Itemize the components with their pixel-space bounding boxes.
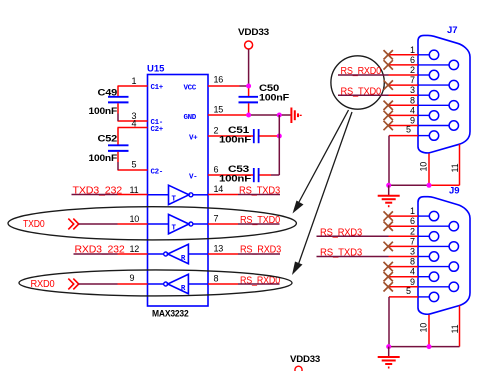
svg-text:1: 1 <box>132 76 137 86</box>
J9 pin 2 (RS_RXD3) <box>389 226 439 241</box>
buffer R1 (receiver, pins 13-12) <box>148 244 209 263</box>
wire RXD3_232 to pin 12 <box>74 253 118 255</box>
svg-text:13: 13 <box>214 244 224 254</box>
svg-text:5: 5 <box>132 160 137 170</box>
svg-text:4: 4 <box>410 267 415 277</box>
svg-text:11: 11 <box>130 185 139 195</box>
svg-text:15: 15 <box>214 105 224 115</box>
pin 11 (T1 in) <box>118 185 148 195</box>
J7 pin 6 <box>389 55 459 70</box>
wire RS_RXD0 to J7 pin2 <box>338 74 389 76</box>
node RXD0 (sheet entry chevron) <box>31 278 79 290</box>
svg-text:5: 5 <box>406 286 411 296</box>
junction J9 rail / pin5 wire <box>386 344 391 349</box>
no-connect X on J7 pin 4 <box>384 111 393 120</box>
node TXD0 (sheet entry chevron) <box>23 218 79 230</box>
J9 pin 4 <box>389 267 439 282</box>
wire pin14 RS_TXD3 <box>238 194 280 196</box>
svg-text:10: 10 <box>419 162 429 172</box>
J7 body <box>418 35 470 153</box>
wire J9 pin5 down to ground rail <box>388 297 390 347</box>
no-connect X on J9 pin 9 <box>384 282 393 291</box>
svg-text:8: 8 <box>214 274 219 284</box>
svg-text:4: 4 <box>410 105 415 115</box>
wire GND rail pin15 <box>249 114 291 116</box>
wire RS_TXD3 to J9 pin3 <box>317 256 389 258</box>
J9 pin 6 <box>389 216 459 231</box>
no-connect X on J9 pin 7 <box>384 242 393 251</box>
svg-text:VDD33: VDD33 <box>238 27 269 38</box>
wire TXD0 to pin 10 <box>79 223 118 225</box>
no-connect X on J7 pin 8 <box>384 101 393 110</box>
power port VDD33 (bottom) <box>290 354 320 371</box>
svg-text:6: 6 <box>410 216 415 226</box>
svg-text:14: 14 <box>214 184 224 194</box>
pin 15 (GND) <box>184 105 249 122</box>
wire vertical GND to C51/C53 <box>278 115 280 175</box>
J7 pin 2 (RS_RXD0) <box>389 65 439 80</box>
svg-text:7: 7 <box>410 75 415 85</box>
svg-text:GND: GND <box>184 114 197 122</box>
ground (earth) below J9 <box>378 347 400 368</box>
svg-text:MAX3232: MAX3232 <box>152 309 189 320</box>
buffer R2 (receiver, pins 8-9) <box>148 274 209 293</box>
junction J7 rail / pin5 wire <box>386 183 391 188</box>
svg-text:VCC: VCC <box>184 84 197 92</box>
svg-text:C1+: C1+ <box>151 84 164 92</box>
svg-text:6: 6 <box>410 55 415 65</box>
junction J9 rail / pin10 <box>427 344 432 349</box>
svg-text:3: 3 <box>410 85 415 95</box>
svg-text:6: 6 <box>214 165 219 175</box>
wire pin16 to VDD junction and C50 <box>240 86 249 115</box>
wire RS_RXD3 to J9 pin2 <box>317 235 389 237</box>
J7 pin 11 (shield) <box>450 144 460 185</box>
svg-text:J7: J7 <box>447 25 458 36</box>
wire pin2 through C51 to vertical <box>238 135 279 137</box>
svg-text:10: 10 <box>419 323 429 333</box>
J7 pin 4 <box>389 105 439 120</box>
svg-text:5: 5 <box>406 125 411 135</box>
annotation circle around RS_RXD0/RS_TXD0 labels <box>331 56 384 109</box>
capacitor C49 <box>89 88 129 118</box>
wire VDD33 vertical to pin16 <box>248 49 250 85</box>
pin 7 (T2 out) <box>208 214 238 225</box>
svg-text:C2+: C2+ <box>151 126 164 134</box>
svg-text:16: 16 <box>214 75 224 85</box>
svg-text:10: 10 <box>130 214 140 224</box>
wire J7 ground rail <box>389 184 429 186</box>
svg-text:C52: C52 <box>98 134 118 145</box>
svg-text:100nF: 100nF <box>89 106 118 117</box>
J7 pin 5 (ground) <box>389 125 439 141</box>
ground (earth) below J7 <box>378 185 400 206</box>
svg-text:100nF: 100nF <box>89 153 118 164</box>
svg-text:8: 8 <box>410 257 415 267</box>
power port VDD33 (top) <box>238 27 269 49</box>
J9 pin 1 <box>389 206 439 221</box>
pin 4 (C2+) <box>118 119 164 134</box>
pin 12 (R1 out) <box>118 244 148 254</box>
J9 pin 11 (shield) <box>450 306 460 347</box>
no-connect X on J7 pin 7 <box>384 80 393 89</box>
pin 9 (R2 out) <box>118 273 148 284</box>
J9 pin 9 <box>389 277 459 292</box>
junction GND vertical <box>277 113 282 118</box>
J7 pin 8 <box>389 95 459 110</box>
buffer T2 (driver, pins 10-7) <box>148 214 209 233</box>
capacitor C53 <box>219 164 259 185</box>
annotation ellipse around TXD0 row <box>8 207 296 240</box>
annotation arrow to RXD0 ellipse <box>292 112 352 275</box>
capacitor C52 <box>89 134 129 165</box>
J9 pin 10 (shield) <box>419 315 430 347</box>
pin 1 (C1+) <box>118 76 164 92</box>
J9 pin 5 (ground) <box>389 286 439 302</box>
no-connect X on J9 pin 4 <box>384 272 393 281</box>
annotation ellipse around RXD0 row <box>19 270 292 296</box>
wire RXD0 to pin 9 <box>79 283 118 285</box>
wire C49 to pin1 and pin3 <box>117 86 119 121</box>
wire C52 to pin4 and pin5 <box>117 128 119 171</box>
svg-text:1: 1 <box>410 45 415 55</box>
svg-text:1: 1 <box>410 206 415 216</box>
svg-text:7: 7 <box>214 214 219 224</box>
wire J9 ground rail <box>389 346 460 348</box>
svg-text:100nF: 100nF <box>259 93 289 104</box>
pin 16 (VCC) <box>184 75 240 93</box>
pin 6 (V-) <box>189 165 238 182</box>
connector J9 (DB9) <box>418 186 470 315</box>
ground (rotated earth, GND net) <box>291 108 300 124</box>
op-amp U15 IC body MAX3232 <box>147 64 208 320</box>
svg-text:RXD0: RXD0 <box>31 278 55 290</box>
no-connect X on J9 pin 8 <box>384 262 393 271</box>
J9 body <box>418 197 470 315</box>
wire pin8 RS_RXD0 <box>238 283 280 285</box>
annotation arrow to TXD0 ellipse <box>293 110 349 214</box>
svg-text:8: 8 <box>410 95 415 105</box>
J7 pin 7 <box>389 75 459 90</box>
buffer T1 (driver, pins 11-14) <box>148 185 209 204</box>
J9 pin 8 <box>389 257 459 272</box>
wire pin7 RS_TXD0 <box>238 223 280 225</box>
capacitor C50 <box>239 83 290 104</box>
J7 pin 1 <box>389 45 439 60</box>
pin 5 (C2-) <box>118 160 163 177</box>
no-connect X on J7 pin 1 <box>384 50 393 59</box>
svg-text:2: 2 <box>410 226 415 236</box>
connector J7 (DB9) <box>418 25 470 153</box>
wire pin6 through C53 to vertical <box>238 174 279 176</box>
svg-text:11: 11 <box>450 324 460 333</box>
wire RS_TXD0 to J7 pin3 <box>338 94 389 96</box>
junction C50/GND <box>246 113 251 118</box>
J7 pin 10 (shield) <box>419 154 430 186</box>
pin 10 (T2 in) <box>118 214 148 224</box>
pin 3 (C1-) <box>118 111 163 127</box>
svg-text:VDD33: VDD33 <box>290 354 320 365</box>
svg-text:U15: U15 <box>147 64 165 75</box>
svg-text:9: 9 <box>130 273 135 283</box>
wire J7 pin5 down to ground rail <box>388 136 390 186</box>
svg-text:4: 4 <box>132 119 137 129</box>
svg-text:C2-: C2- <box>151 168 163 176</box>
junction C51/vertical <box>277 134 282 139</box>
svg-text:V-: V- <box>189 173 197 181</box>
no-connect X on J7 pin 9 <box>384 121 393 130</box>
pin 8 (R2 in) <box>208 274 238 285</box>
junction pin16/VDD33 <box>246 84 251 89</box>
pin 14 (T1 out) <box>208 184 238 195</box>
svg-text:2: 2 <box>214 126 219 136</box>
no-connect X on J9 pin 1 <box>384 211 393 220</box>
wire pin13 RS_RXD3 <box>238 253 280 255</box>
junction J7 rail / pin10 <box>427 183 432 188</box>
svg-text:V+: V+ <box>189 134 198 142</box>
J7 pin 9 <box>389 116 459 131</box>
svg-text:2: 2 <box>410 65 415 75</box>
wire TXD3_232 to pin 11 <box>72 194 118 196</box>
J9 pin 7 <box>389 236 459 251</box>
J9 pin 3 (RS_TXD3) <box>389 247 439 262</box>
pin 2 (V+) <box>189 126 238 143</box>
no-connect X on J9 pin 6 <box>384 222 393 231</box>
svg-text:11: 11 <box>450 163 460 172</box>
svg-text:TXD0: TXD0 <box>23 218 45 230</box>
svg-text:7: 7 <box>410 236 415 246</box>
pin 13 (R1 in) <box>208 244 238 255</box>
svg-text:12: 12 <box>130 244 140 254</box>
svg-text:J9: J9 <box>449 186 460 197</box>
svg-text:3: 3 <box>410 247 415 257</box>
J7 pin 3 (RS_TXD0) <box>389 85 439 100</box>
no-connect X on J7 pin 6 <box>384 60 393 69</box>
capacitor C51 <box>219 125 259 146</box>
